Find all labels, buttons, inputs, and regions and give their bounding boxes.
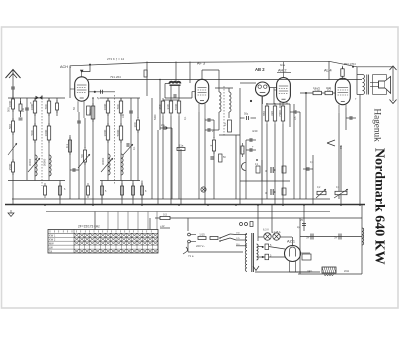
wire feed 304 [303,205,305,218]
svg-text:30000: 30000 [28,158,32,166]
capacitor 25 [302,224,306,226]
wire antenna down [12,90,14,205]
coil if1 bottom a [108,154,110,175]
coil output transformer [363,75,365,95]
resistor hang 142 [141,183,144,198]
capacitor antenna coupling [11,87,15,89]
wire cap25 [303,218,305,231]
svg-text:AL 4: AL 4 [324,69,332,73]
capacitor elko 2 [334,234,341,240]
wire if2 la [218,112,220,130]
tube V4 AH2 [274,62,290,109]
capacitor v1 c [73,168,75,172]
wire table tick [160,227,170,229]
wire top speaker line [329,61,393,67]
wire trafo tap 125 [236,239,247,241]
wire col294 [293,104,295,199]
wire stub 57 [56,98,58,103]
capacitor elko 1 [306,234,313,240]
svg-text:330: 330 [166,104,170,109]
transformer primary [245,234,247,272]
wire af3 tb [170,116,172,205]
wire trio bc [282,124,284,205]
wire trafo sec a [258,246,263,248]
svg-text:3000: 3000 [103,129,107,136]
wire speaker term [392,67,394,101]
wire al4 box up [342,67,344,69]
lamp dial [201,187,206,192]
svg-text:5000: 5000 [154,114,157,120]
capacitor mid 212 [211,156,213,160]
wire top bus 2 [88,79,362,81]
svg-text:273 K ƒ = 14: 273 K ƒ = 14 [107,57,124,61]
junction bus d7 [359,204,361,206]
svg-text:791.264: 791.264 [110,75,121,79]
wire af3 tc [178,116,180,199]
wire col60 [59,181,61,206]
resistor R ant [8,96,15,112]
resistor mains [210,237,218,240]
junction bus d2 [141,204,143,206]
trimmer bowtie [36,96,43,100]
svg-text:bina: bina [280,63,285,67]
svg-text:3+: 3+ [306,236,310,240]
wire if2 h130 [205,129,219,131]
choke field coil [362,228,364,245]
wire v1 plate right [89,91,116,93]
wire v2 anode h [202,69,219,71]
wire trio bb [274,124,276,205]
wire power left v [187,243,189,252]
wire ot down [359,95,361,206]
svg-text:7000: 7000 [174,103,178,110]
wire trio ba [266,124,268,199]
wire h112 [290,111,300,113]
wire if2 dashed [223,86,225,136]
wire col93 [92,98,94,205]
wire stub 20b [20,111,22,117]
wire bf1 link [26,98,28,180]
svg-text:50000: 50000 [43,158,47,166]
resistor if1 b [116,123,123,143]
svg-text:1MΩ: 1MΩ [326,87,331,90]
bus line main [5,204,365,206]
wire col122 [121,181,123,205]
wire osc top drop [189,62,191,84]
wire trafo bottom line [255,271,310,273]
transformer secondary [257,244,259,260]
bus line lower a [46,211,330,213]
resistor under t1 a [59,183,62,198]
capacitor v1 coupling [101,90,103,94]
capacitor mid 165 [164,126,166,130]
junction ab2 [250,100,252,102]
capacitor if2 c1 [208,118,210,122]
wire v2 anode [201,70,203,79]
resistor heater a [265,244,269,250]
resistor trio a [262,103,269,124]
resistor trio b [270,103,277,124]
resistor hang 45 [44,183,47,198]
wire row181 [240,180,290,182]
svg-text:650: 650 [158,104,162,109]
node bf1 right [48,98,50,181]
capacitor on 147 [144,70,147,77]
svg-text:MW: MW [49,242,54,246]
svg-text:Ebm: Ebm [88,109,92,116]
tube AZ1 [285,246,311,273]
resistor al4 g2 [325,87,333,94]
capacitor if1 c1 [129,111,133,113]
wire col138 [137,98,139,118]
wire col165 [164,84,166,99]
wire trio top [266,103,290,105]
svg-text:+1,25 A: +1,25 A [272,231,281,234]
wire v5 s [345,108,347,130]
svg-text:LW: LW [49,245,53,249]
wire col262 [261,160,263,181]
junction 165 [166,127,168,129]
junction 257 160 [256,159,258,161]
wire trafo sec b [258,256,285,258]
coil if2 a [219,92,221,112]
wire ab2 c h [246,139,256,141]
junction bus d6 [303,204,305,206]
core output transformer 2 [368,75,370,95]
arrow v1 anode [80,70,84,73]
svg-text:4/40: 4/40 [252,129,258,133]
svg-text:0,1: 0,1 [65,144,69,149]
trimmer right a [316,189,326,198]
svg-text:KW 1: KW 1 [49,234,56,238]
svg-text:1000: 1000 [103,103,107,110]
junction bus d4 [235,204,237,206]
trimmer if1 caps [123,144,133,155]
svg-text:71 a: 71 a [188,254,194,258]
resistor Ebm2 [87,106,91,115]
node if2 right [228,88,230,92]
wire osc h98 [165,97,192,99]
wire mains b [230,238,236,240]
wire col341 [340,146,342,205]
bus line upper [12,198,330,200]
speaker [370,77,391,94]
wire power h236 [300,236,362,238]
jack TA a [240,223,243,226]
wire bf1 dashed gang [41,95,43,186]
svg-text:51a: 51a [179,144,184,148]
svg-text:0,1: 0,1 [224,122,227,126]
capacitor osc [174,94,176,98]
resistor 242 [241,143,244,157]
tube V3 AB2 [256,82,270,104]
stub table 118 [117,212,119,230]
svg-text:5000: 5000 [116,129,120,136]
node if1 right [120,98,122,181]
capacitor 0,1 box [228,120,232,132]
wire ab2 left [240,82,256,84]
speaker housing [373,75,387,95]
node bf1 left [34,98,36,181]
wire if2 anode drop [218,70,220,88]
tube V2 AF3 [192,79,209,118]
capacitor box 220 [219,154,223,162]
wire az1 top [292,237,294,246]
terminal speaker top [390,66,397,70]
trimmer right b [334,189,348,198]
resistor mid 181 [177,144,185,151]
switch sym right [327,140,335,146]
svg-text:Nordmark 640 KW: Nordmark 640 KW [372,148,387,265]
wire if2 h120 [205,119,214,121]
wire v2 s [204,118,206,205]
svg-text:220 V~: 220 V~ [196,244,205,248]
wire col236 [235,135,237,199]
junction heater b [262,256,264,258]
resistor af3 c [174,98,181,116]
wire feed 362b [361,205,363,218]
node if1 left [107,98,109,181]
resistor hang 102 [101,183,104,198]
wire col306 [305,93,307,199]
resistor hang 122 [121,183,124,198]
coil L1b [44,98,51,116]
wire ab2 right [269,87,276,89]
antenna [6,70,21,100]
junction bus d5 [257,204,259,206]
resistor mains dropper [322,267,336,276]
wire af3 ta [162,116,164,199]
table dial chart [48,230,158,254]
svg-text:330: 330 [270,111,274,116]
wire drop 160 [159,80,161,131]
wire col85 [84,118,86,148]
resistor R2 [8,118,15,135]
resistor input 57 [56,100,59,113]
resistor v1 b [80,147,87,165]
wire power bottom [298,273,362,275]
capacitor v4 g [294,110,296,114]
wire al4 top long [328,61,330,80]
wire ab2 down [261,97,263,134]
capacitor right 308 [307,167,309,171]
wire col102 [101,181,103,206]
resistor 0,5 [160,212,170,219]
wire col258b [261,133,263,205]
wire col142 [141,181,143,206]
svg-text:30000: 30000 [101,157,105,165]
capacitor elko r2 [265,189,276,195]
wire bf1 top [8,97,65,99]
resistor trio c [278,103,285,124]
wire ah2 left v [273,88,275,104]
tube V5 AL4 [335,78,350,112]
svg-text:3+: 3+ [334,236,338,240]
wire lamp feed [271,205,273,233]
resistor input 20 [19,101,22,114]
resistor v1 k [65,137,72,155]
wire col133 [132,181,134,206]
capacitor bf1 a [25,108,29,110]
wire al4 grid chain [300,92,335,94]
capacitor under v1 [77,121,81,123]
svg-text:50: 50 [80,154,84,158]
wire ot top [356,67,358,75]
junction 160 [159,79,161,81]
stub table 128 [127,212,129,230]
coil bf1 bottom a [35,155,37,176]
stub table 157 [156,212,158,230]
capacitor 0,1 b [282,166,286,173]
wire heater a [269,247,285,250]
svg-text:500: 500 [30,130,34,135]
wire lamps b [281,236,293,238]
wire ot left [356,75,358,95]
wire v5 k [338,113,340,199]
resistor right b [335,191,347,194]
transformer core [251,233,253,272]
svg-text:U4LL: U4LL [307,270,313,273]
wire lamps [258,236,263,238]
svg-text:1000: 1000 [8,100,12,107]
resistor v2 k [209,137,216,154]
wire v1 grid cap [69,66,71,98]
capacitor elko r1 [265,167,276,173]
capacitor 20 bot [19,118,23,120]
resistor heater b [265,254,269,260]
trimmer arrow bf1 [28,158,40,172]
wire ab2 118a [240,117,245,119]
svg-text:ACH 1: ACH 1 [60,65,71,69]
wire table v150 [149,218,151,229]
wire col138b [137,130,139,181]
svg-text:3500: 3500 [8,163,12,170]
lamp pilot 1 [264,233,271,240]
wire power h252 [188,251,243,253]
underline AH2 [277,72,291,74]
svg-text:700: 700 [116,104,120,109]
capacitor if1 c2 [127,143,129,147]
svg-text:AF 3: AF 3 [197,62,205,66]
wire v1 anode jog [82,65,90,72]
svg-text:KW 2: KW 2 [49,238,56,242]
wire col300 [299,112,301,199]
wire if2 bottom [219,134,240,136]
svg-text:500: 500 [8,124,12,129]
svg-text:6,3 V: 6,3 V [263,229,269,232]
svg-text:2F=15/173 kHz: 2F=15/173 kHz [78,225,100,229]
junction bus 4 [340,204,342,206]
wire trafo tap 110 [236,245,247,247]
fuse [198,233,206,240]
trimmer arrow if1 [101,158,113,172]
wire h128 [160,127,172,129]
resistor af3 a [158,98,165,116]
trimmer under v1 [78,154,90,168]
switch mains [219,234,230,242]
svg-text:200: 200 [22,107,25,112]
wire v1 k [78,112,80,199]
wire if1 dashed [114,95,116,184]
capacitor v5 [350,116,352,120]
wire col290 [289,104,291,127]
coil L2a [103,98,110,116]
wire col85b [84,162,86,205]
wire h169 [303,168,313,170]
wire col172 [171,128,173,199]
junction al4 grid [305,92,307,94]
wire table v95 [94,212,96,230]
wire af3 trio top [163,99,179,101]
coil bf1 bottom b [49,155,51,176]
capacitor if2 c2 [208,128,210,132]
resistor hang 88 [87,183,90,198]
wire feed 258 [257,205,259,241]
wire col181 [180,149,182,205]
svg-text:1/15: 1/15 [199,233,205,237]
resistor right a [317,191,326,194]
wire bf1 bottom [8,180,65,182]
wire col131 [130,98,132,181]
wire v5 s2 [346,117,356,119]
junction v1 right [94,91,96,93]
svg-text:AB 2: AB 2 [255,67,265,72]
jack TA b [245,223,248,226]
svg-text:Hagenuk: Hagenuk [372,109,382,143]
wire stub 57b [56,110,58,116]
resistor bf1 mid b [44,123,51,143]
coil L2b [116,98,123,116]
bus line lower b [155,217,362,219]
wire power v300 [299,218,301,274]
wire power v362 [361,218,363,274]
node if2 left [218,88,220,92]
capacitor 0,1 a [256,166,260,173]
svg-text:AH 2: AH 2 [278,69,286,73]
tube V1 ACH1 [70,72,89,119]
trimmer arrow input [8,143,17,155]
wire col313 [312,155,314,205]
stub table 108 [107,212,109,230]
junction al4 top [352,66,354,68]
svg-text:+12: +12 [160,224,165,228]
resistor hang 133 [132,183,135,198]
capacitor 0,1 c [282,188,286,195]
wire az1 bot [290,271,321,273]
wire al4 anode [342,75,344,77]
wire col246 [245,140,247,199]
wire if1 top [100,97,140,99]
stub table 138 [137,212,139,230]
svg-text:0,5: 0,5 [163,212,167,216]
wire col240b [239,135,241,205]
ground arrow trafo [253,266,259,271]
resistor if1 r3 [133,117,140,133]
wire drop 176 [175,62,177,84]
resistor R3 [8,159,15,175]
resistor if1 a [103,123,110,143]
mains plug [188,233,196,243]
capacitor ab2 50u [247,116,249,120]
resistor al4 anode [341,66,344,80]
capacitor ab2 b [250,148,252,152]
wire ot tap top [357,74,363,76]
wire col214b [213,151,215,199]
wire col214 [213,120,215,138]
coil if2 b [229,92,231,112]
coil L1a [30,98,37,116]
wire v2 grid [191,92,193,99]
